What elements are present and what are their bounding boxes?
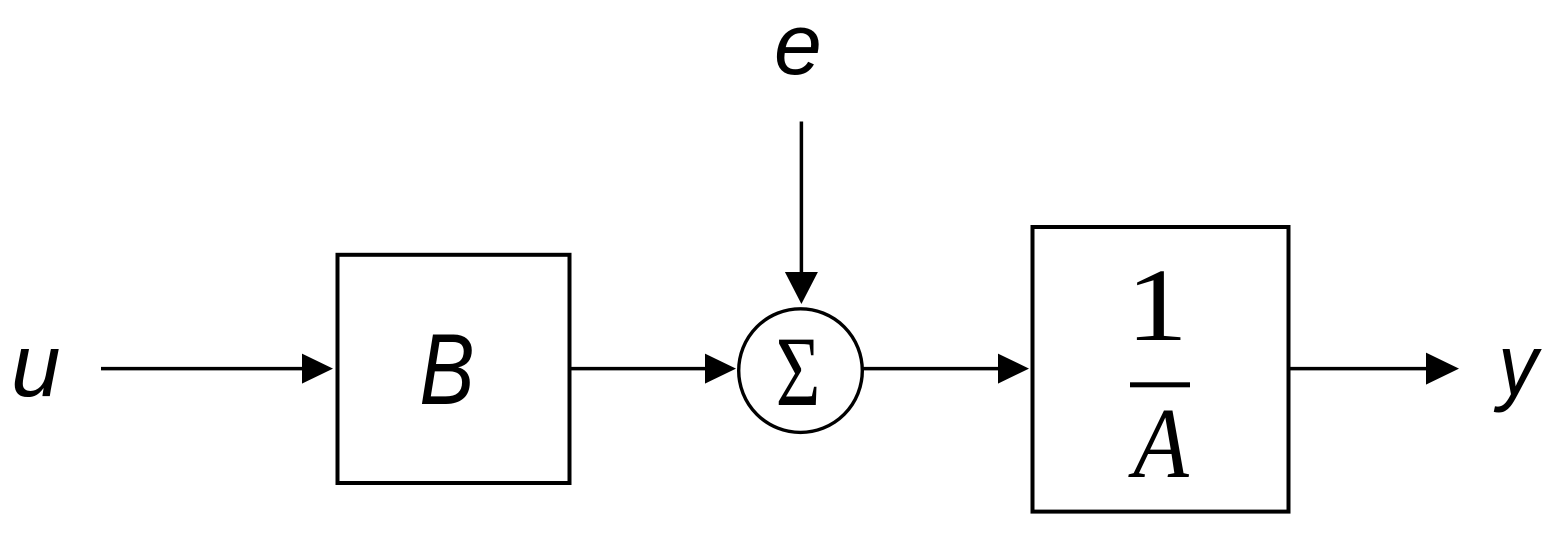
svg-text:A: A xyxy=(1128,387,1190,499)
svg-text:Σ: Σ xyxy=(776,318,821,428)
svg-text:u: u xyxy=(11,315,61,415)
svg-text:1: 1 xyxy=(1126,247,1188,363)
svg-text:e: e xyxy=(774,0,822,93)
svg-text:B: B xyxy=(419,312,474,426)
svg-text:y: y xyxy=(1493,316,1542,413)
